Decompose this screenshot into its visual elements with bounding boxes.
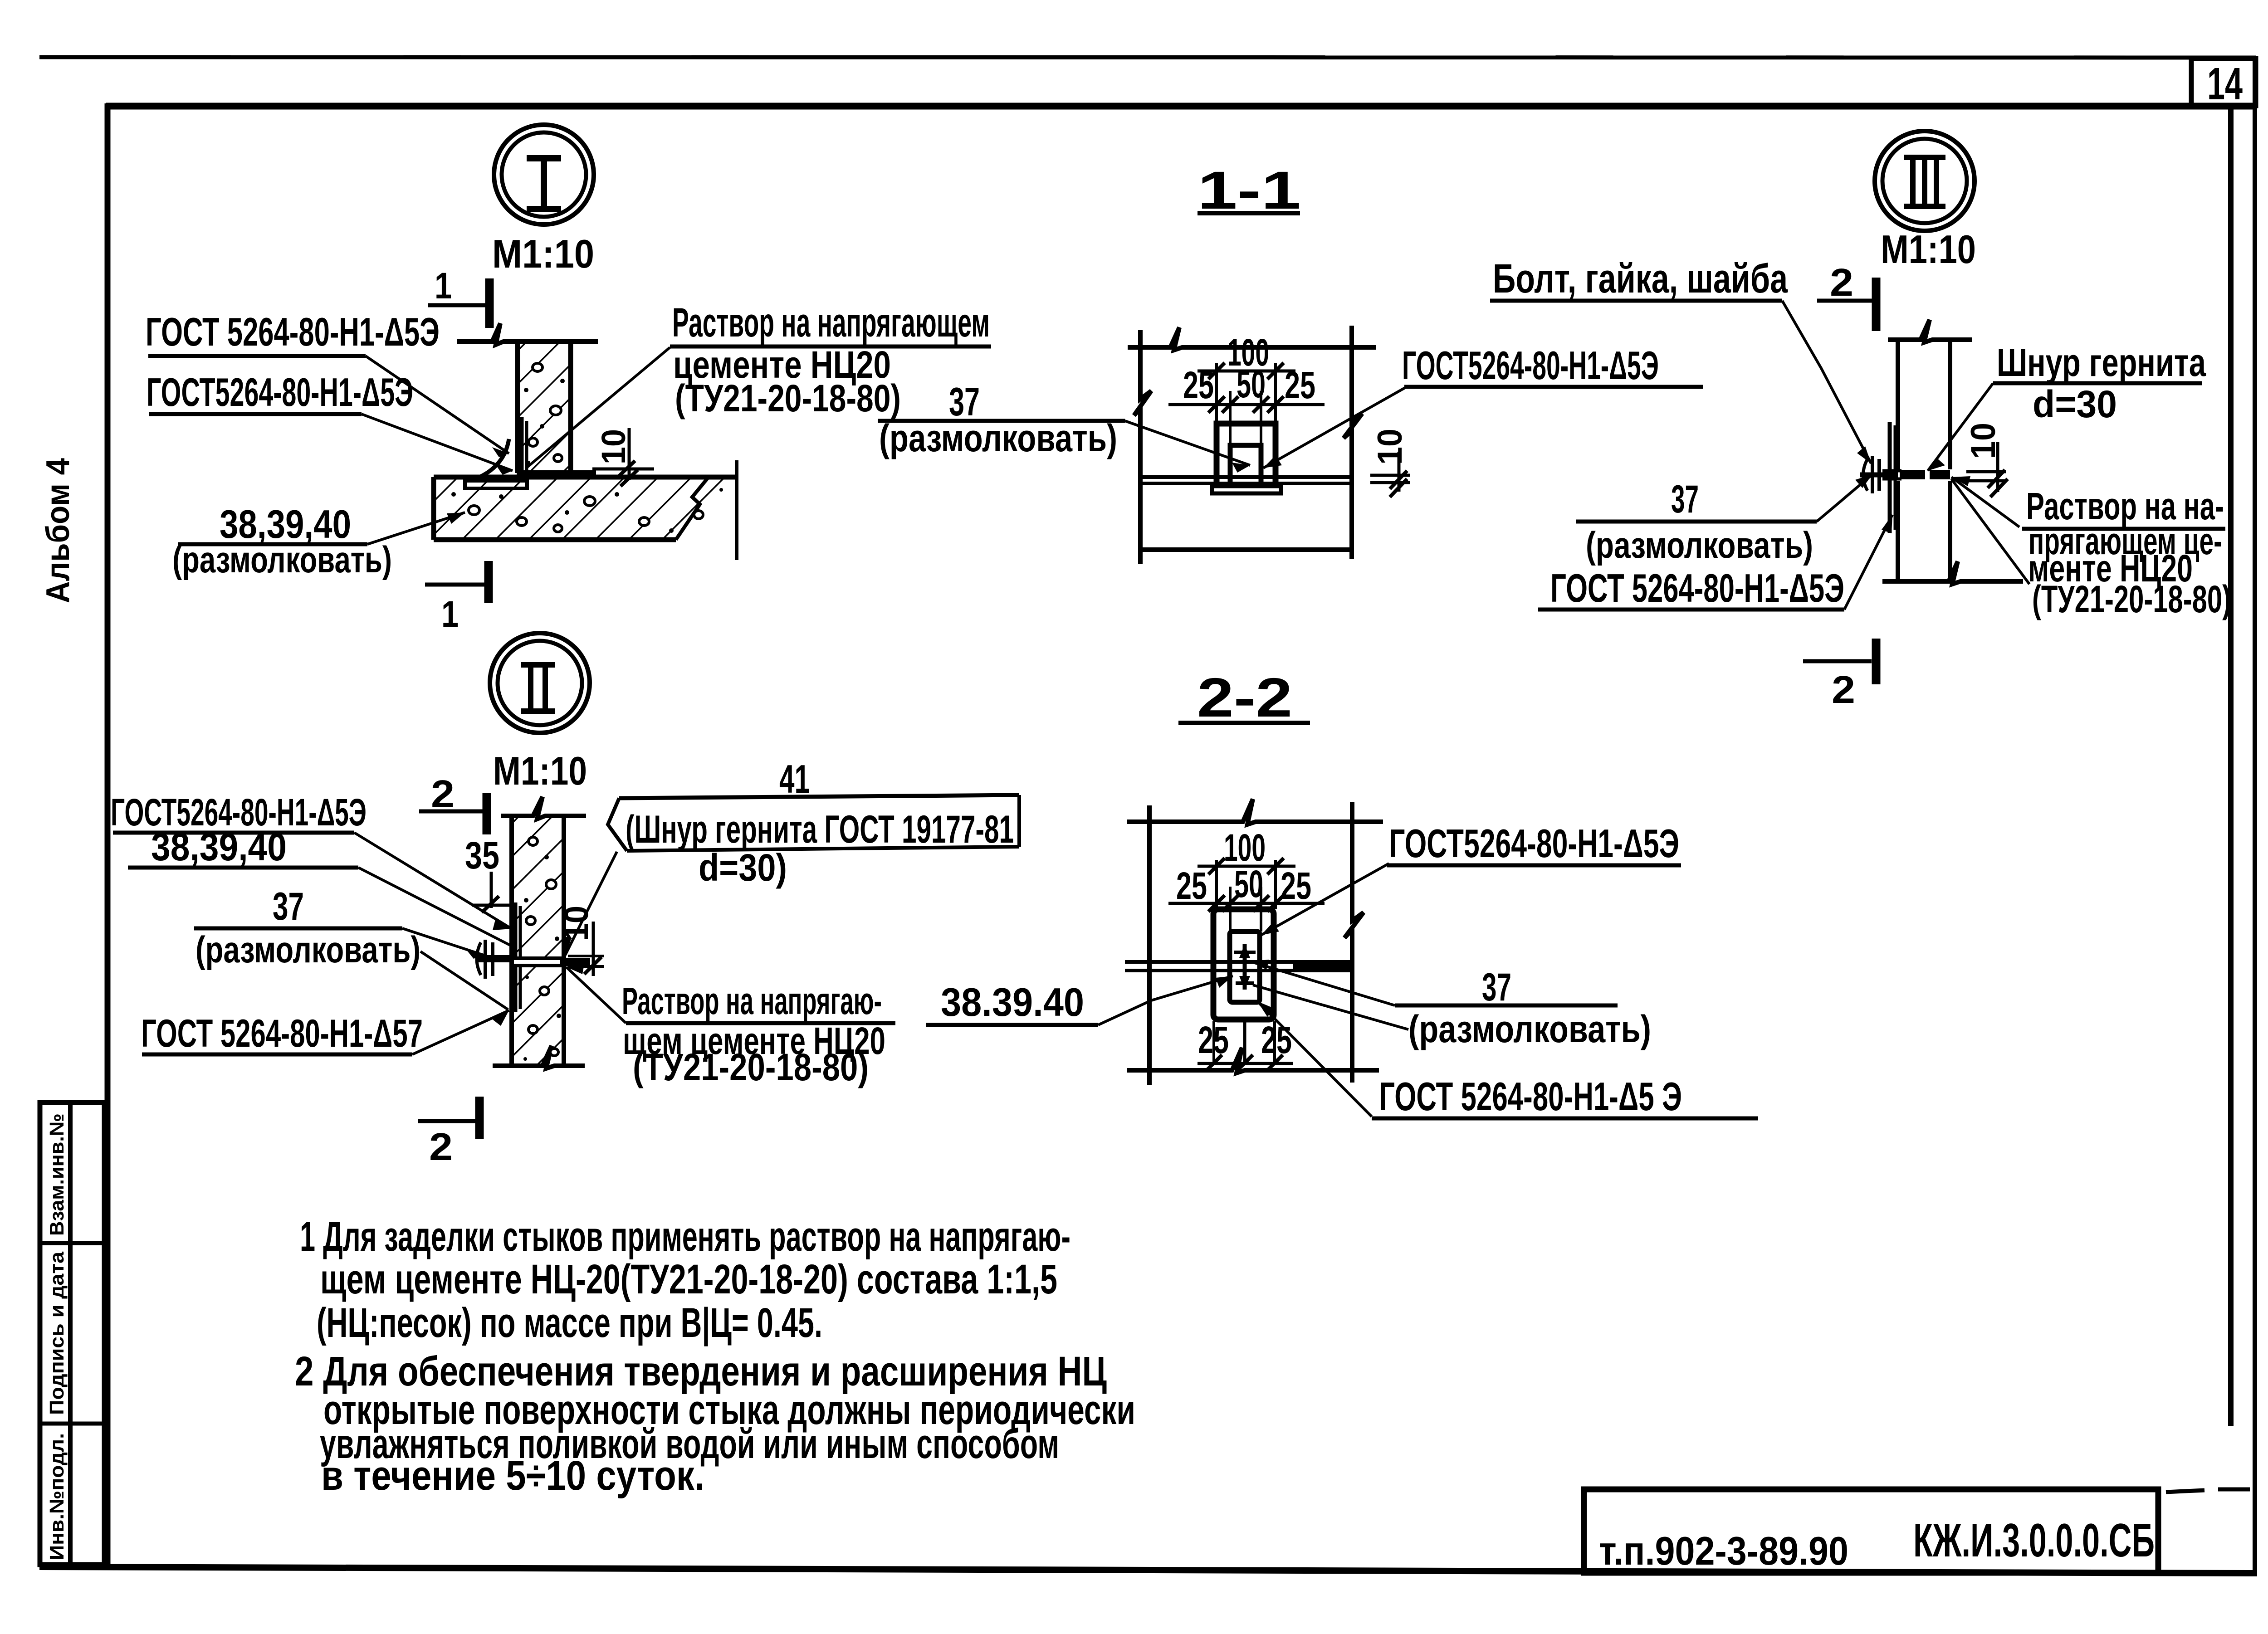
detail III numeral III: [1904, 157, 1945, 206]
drawing frame top: [106, 103, 2256, 110]
cover plate II lower: [513, 966, 518, 1012]
detail I mark circle: [494, 125, 594, 224]
embedded angle vertical plate I: [520, 417, 524, 472]
svg-text:Болт, гайка, шайба: Болт, гайка, шайба: [1493, 256, 1788, 302]
1-1 keyway inner: [1230, 445, 1261, 483]
2-2 panel bottom edge: [1127, 1048, 1379, 1073]
wall III bottom edge: [1882, 561, 2023, 584]
svg-text:Взам.инв.№: Взам.инв.№: [46, 1113, 68, 1236]
floor slab bottom edge: [434, 537, 676, 542]
drawing frame bottom: [39, 1567, 2255, 1573]
floor slab hatched body: [436, 479, 733, 537]
svg-text:37: 37: [273, 885, 304, 928]
section cut 2 top tick: [1872, 278, 1881, 331]
dim 10 of detail I: [628, 428, 631, 480]
svg-text:(ТУ21-20-18-80): (ТУ21-20-18-80): [2032, 578, 2231, 620]
stamp column outline: [40, 1102, 104, 1565]
svg-text:d=30: d=30: [2033, 383, 2117, 425]
section cut 2 bottom tick: [1872, 639, 1881, 684]
leader from II 38,39,40 to wall: [358, 868, 513, 947]
svg-text:Раствор на напрягающем: Раствор на напрягающем: [672, 300, 990, 346]
svg-text:2: 2: [1830, 261, 1853, 304]
2-2 keyway outer: [1213, 909, 1274, 1019]
leader from right ГОСТ label to keyway: [1263, 387, 1407, 468]
leader from ГОСТ label 2 to seam: [362, 414, 513, 471]
leader from gernit box to joint II: [565, 852, 617, 955]
svg-text:ГОСТ 5264-80-Н1-Δ57: ГОСТ 5264-80-Н1-Δ57: [141, 1012, 423, 1055]
svg-text:35: 35: [465, 834, 499, 877]
section cut 2 upper tick (detail II): [483, 793, 491, 834]
section cut 1 bottom tick: [484, 561, 493, 603]
wall II lower hatched body: [514, 967, 562, 1064]
svg-text:50: 50: [1237, 363, 1266, 405]
2-2 panel top edge: [1127, 799, 1383, 824]
leader from ГОСТ label 1 to weld: [366, 356, 509, 454]
wall II top edge: [501, 797, 586, 819]
page number box: [2191, 59, 2256, 106]
bolt through plate III: [1860, 473, 1898, 478]
svg-text:10: 10: [595, 429, 632, 464]
2-2 joint line lower: [1125, 969, 1352, 972]
1-1 keyway outer: [1217, 424, 1276, 486]
1-1 joint line lower: [1140, 482, 1352, 485]
top rule: [39, 57, 2256, 58]
1-1 keyway bottom flange: [1212, 486, 1281, 493]
leader from II mortar label to seam: [566, 967, 626, 1023]
drawing frame right inner: [2228, 106, 2234, 1426]
1-1 panel bottom edge: [1139, 547, 1350, 552]
2-2 joint seam black segment: [1293, 962, 1352, 971]
svg-text:25: 25: [1176, 864, 1207, 907]
svg-text:ГОСТ5264-80-Н1-Δ5Э: ГОСТ5264-80-Н1-Δ5Э: [1389, 821, 1679, 866]
floor slab aggregate dots: [469, 497, 703, 532]
1-1 panel left edge: [1134, 330, 1151, 564]
svg-text:2: 2: [431, 773, 455, 816]
detail I numeral I: [527, 158, 561, 209]
svg-text:М1:10: М1:10: [493, 748, 587, 793]
svg-text:25: 25: [1261, 1019, 1292, 1061]
1-1 dim extension lines: [1217, 363, 1276, 445]
cover plate II upper: [513, 902, 518, 958]
svg-text:d=30): d=30): [699, 846, 787, 889]
leader from bolt label to bolt: [1782, 301, 1871, 463]
title block top dashes: [2166, 1490, 2204, 1492]
svg-text:в течение 5÷10 суток.: в течение 5÷10 суток.: [321, 1453, 704, 1499]
floor slab left edge: [431, 477, 436, 540]
leaders from II 37 label to bolt: [402, 928, 484, 955]
svg-text:38.39.40: 38.39.40: [941, 980, 1084, 1024]
weld bead hook I: [475, 439, 509, 479]
leaders from mortar label III to joint: [1951, 477, 2019, 527]
cover plate III (vertical): [1888, 422, 1892, 533]
wall III left edge lower: [1896, 481, 1900, 581]
svg-text:14: 14: [2207, 59, 2243, 109]
stamp column row divider 1: [40, 1241, 104, 1245]
svg-text:ГОСТ 5264-80-Н1-Δ5Э: ГОСТ 5264-80-Н1-Δ5Э: [1550, 566, 1844, 610]
svg-text:КЖ.И.3.0.0.0.СБ: КЖ.И.3.0.0.0.СБ: [1913, 1514, 2155, 1567]
svg-text:щем цементе НЦ-20(ТУ21-20-18-2: щем цементе НЦ-20(ТУ21-20-18-20) состава…: [320, 1256, 1057, 1302]
leader from mortar label to seam: [526, 347, 670, 468]
wall II upper hatched body: [514, 816, 562, 956]
wall III right edge upper: [1948, 340, 1952, 469]
svg-text:1: 1: [435, 265, 452, 307]
leader from 2-2 ГОСТ upper to keyway: [1261, 863, 1389, 935]
leader from 2-2 38.39.40 to keyway: [1098, 976, 1233, 1025]
svg-text:Альбом 4: Альбом 4: [40, 458, 76, 603]
svg-text:(НЦ:песок) по массе при В|Ц= 0: (НЦ:песок) по массе при В|Ц= 0.45.: [317, 1300, 822, 1346]
2-2 joint line upper: [1125, 960, 1352, 964]
svg-text:ГОСТ5264-80-Н1-Δ5Э: ГОСТ5264-80-Н1-Δ5Э: [1402, 343, 1659, 388]
svg-text:ГОСТ 5264-80-Н1-Δ5Э: ГОСТ 5264-80-Н1-Δ5Э: [146, 309, 440, 354]
svg-text:25: 25: [1183, 364, 1214, 406]
leader from 2-2 ГОСТ lower to keyway: [1257, 1001, 1372, 1117]
title block box: [1584, 1489, 2158, 1573]
section cut 1 top line: [428, 303, 486, 307]
svg-text:2: 2: [1832, 668, 1855, 712]
2-2 dim extension lines: [1217, 860, 1276, 932]
svg-text:(размолковать): (размолковать): [879, 417, 1117, 459]
drawing frame left: [105, 103, 111, 1569]
leader from 38,39,40 label to slab: [367, 512, 465, 544]
section cut 2 upper line (detail II): [419, 810, 484, 814]
embedded angle horizontal leg I: [465, 481, 527, 488]
1-1 panel top edge: [1128, 327, 1376, 350]
svg-text:1 Для заделки стыков применят: 1 Для заделки стыков применять раствор н…: [300, 1214, 1070, 1260]
svg-text:т.п.902-3-89.90: т.п.902-3-89.90: [1599, 1528, 1848, 1573]
svg-text:1: 1: [441, 594, 459, 635]
leader from gernit label to seam: [1928, 383, 1993, 471]
section cut 2 lower tick (detail II): [475, 1097, 484, 1139]
1-1 joint line upper: [1140, 475, 1352, 479]
leader from II ГОСТ upper to plate: [354, 833, 512, 929]
joint open lines III: [1882, 469, 1901, 473]
svg-text:38,39,40: 38,39,40: [151, 825, 287, 869]
svg-text:ГОСТ 5264-80-Н1-Δ5 Э: ГОСТ 5264-80-Н1-Δ5 Э: [1379, 1074, 1682, 1119]
svg-text:Раствор на напрягаю-: Раствор на напрягаю-: [622, 980, 882, 1022]
svg-text:2: 2: [429, 1126, 453, 1169]
svg-text:(размолковать): (размолковать): [172, 539, 392, 580]
leader from 37 label to keyway: [1125, 421, 1250, 465]
section cut 2 lower line (detail II): [418, 1119, 476, 1123]
wall II left edge: [509, 816, 514, 1066]
2-2 keyway inner: [1230, 932, 1260, 1002]
detail III mark circle: [1875, 131, 1975, 231]
section cut 2 bottom line: [1803, 659, 1872, 663]
svg-text:25: 25: [1281, 864, 1311, 907]
svg-text:(Шнур гернита ГОСТ 19177-81: (Шнур гернита ГОСТ 19177-81: [626, 808, 1014, 851]
svg-text:10: 10: [1371, 429, 1409, 465]
svg-text:50: 50: [1234, 863, 1263, 905]
svg-text:2-2: 2-2: [1197, 667, 1292, 728]
svg-text:(размолковать): (размолковать): [1408, 1008, 1651, 1050]
gernit box label (Шнур гернита ГОСТ 19177-81 d=30): [608, 798, 627, 851]
wall panel I top edge: [457, 323, 598, 345]
leader from III ГОСТ label to plate: [1844, 515, 1892, 610]
leader from II ГОСТ lower to plate: [412, 1010, 509, 1054]
mortar seam I (black): [517, 470, 596, 478]
wall II bottom edge: [493, 1046, 585, 1068]
svg-text:Инв.№подл.: Инв.№подл.: [46, 1433, 68, 1560]
svg-text:Подпись и дата: Подпись и дата: [46, 1251, 68, 1415]
svg-text:(ТУ21-20-18-80): (ТУ21-20-18-80): [633, 1046, 869, 1088]
stamp column row divider 2: [40, 1422, 104, 1426]
svg-text:(размолковать): (размолковать): [1586, 525, 1813, 566]
detail II numeral II: [521, 665, 555, 711]
wall panel I right edge: [568, 341, 573, 473]
floor slab right break line: [676, 477, 709, 540]
41 underline / box top: [619, 795, 1019, 798]
section cut 1 top tick: [485, 278, 494, 328]
detail II mark circle: [490, 633, 590, 733]
drawing frame right outer: [2253, 59, 2257, 1576]
svg-text:(ТУ21-20-18-80): (ТУ21-20-18-80): [675, 377, 901, 419]
wall III right edge lower: [1948, 481, 1952, 581]
svg-text:37: 37: [1671, 478, 1699, 521]
wall panel I left edge: [515, 341, 520, 473]
stamp column text divider: [68, 1102, 73, 1565]
svg-text:(размолковать): (размолковать): [196, 929, 420, 971]
svg-text:ГОСТ5264-80-Н1-Δ5Э: ГОСТ5264-80-Н1-Δ5Э: [147, 370, 413, 415]
leaders from 2-2 37 label to bolt: [1250, 961, 1395, 1005]
wall III left edge upper: [1896, 340, 1900, 469]
section cut 1 bottom line: [425, 583, 486, 587]
svg-text:Шнур гернита: Шнур гернита: [1997, 341, 2206, 385]
wall panel I aggregate dots: [528, 363, 562, 462]
svg-text:41: 41: [779, 756, 810, 801]
gernit cord seam III (black segments): [1900, 470, 1925, 479]
2-2 panel right edge: [1344, 802, 1364, 1083]
wall III top edge: [1888, 320, 1972, 342]
section cut 2 top line: [1817, 299, 1872, 303]
wall panel I hatched body: [520, 341, 569, 472]
svg-text:37: 37: [1482, 966, 1511, 1009]
joint seam II lines in wall: [512, 956, 564, 960]
wall II right edge: [562, 816, 566, 1066]
floor slab top edge: [434, 475, 737, 480]
leader from III 37 label to bolt: [1817, 474, 1872, 522]
2-2 anchor bolt: [1243, 944, 1247, 990]
svg-text:25: 25: [1285, 364, 1315, 406]
2-2 panel left edge: [1147, 805, 1152, 1085]
wall II aggregate dots: [526, 837, 558, 1056]
bolt through joint II: [475, 955, 513, 962]
1-1 panel right edge: [1344, 326, 1362, 559]
joint seam II (black): [560, 958, 590, 966]
svg-text:М1:10: М1:10: [1881, 227, 1976, 272]
svg-text:М1:10: М1:10: [492, 231, 594, 276]
